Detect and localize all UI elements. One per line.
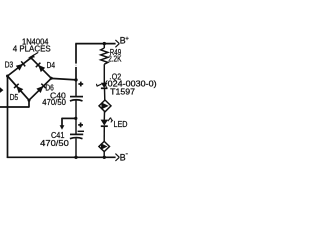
transistor Q2 (SCR) (97, 83, 108, 89)
svg-text:D4: D4 (47, 61, 56, 70)
node: junction dot tap stub / filter wire (74, 117, 77, 120)
diode D5 (14, 84, 23, 94)
diode Z2 (diamond breakdown device) (99, 141, 110, 151)
capacitor C41 (70, 134, 83, 138)
node: B+ terminal arrow (115, 40, 119, 47)
wire: C40 to C41 (75, 100, 77, 134)
svg-text:470/50: 470/50 (42, 98, 66, 107)
wire: R49 to Q2 (103, 64, 105, 83)
wire: bridge bottom-left edge (8, 76, 30, 100)
diode D6 (36, 84, 45, 93)
svg-text:D5: D5 (10, 93, 19, 102)
wire: AC input to bridge bottom vertex (0, 100, 29, 108)
wire: riser to B+ rail (75, 44, 77, 80)
node: junction dot B+ rail / R49 (103, 42, 106, 45)
diode D4 (36, 63, 45, 72)
diode Z1 (diamond breakdown device) (99, 100, 111, 112)
wire: bridge top-left edge (8, 58, 32, 76)
diode D3 (16, 61, 25, 70)
capacitor C40 (70, 97, 83, 101)
wire: Q2 to zener Z1 (104, 88, 106, 100)
wire: Z2 to B- rail (103, 151, 105, 157)
polarity + for C40 (78, 82, 83, 87)
svg-text:-: - (126, 149, 129, 158)
input terminal arrow (left, upper) (0, 87, 3, 93)
wire: bridge top-right edge (31, 58, 51, 79)
wire: LED to zener Z2 (103, 126, 105, 141)
node: bridge left vertex dot (6, 75, 9, 78)
wire: C41 to B- rail (75, 138, 77, 157)
svg-text:2.2K: 2.2K (108, 55, 122, 64)
svg-text:LED: LED (114, 120, 128, 129)
polarity + for C41 (78, 123, 83, 128)
wire: R49 top lead (103, 44, 105, 48)
LED indicator diode (101, 118, 113, 127)
callout arrow to bridge (4 places) (28, 52, 39, 58)
wire: filter node down to C40 (75, 80, 77, 97)
node: bridge top vertex dot (29, 56, 32, 59)
speck before Q2 label (110, 78, 111, 79)
wire: B+ rail (75, 43, 115, 45)
wire: bridge bottom-right edge (29, 78, 51, 100)
wire: B- rail (7, 156, 116, 158)
node: junction dot at filter column top (74, 78, 77, 81)
svg-text:4 PLACES: 4 PLACES (13, 43, 51, 53)
wire: bridge right vertex to filter node (51, 78, 76, 80)
node: bridge bottom vertex dot (28, 99, 31, 102)
svg-text:D3: D3 (5, 60, 14, 69)
polarity tick near C41 (78, 130, 84, 132)
svg-text:+: + (125, 35, 129, 42)
wire: Z1 to LED (103, 111, 105, 120)
resistor R49 (101, 48, 108, 64)
node: junction dot C41 / B- rail (74, 156, 77, 159)
node: B- terminal arrow (115, 154, 119, 161)
svg-text:470/50: 470/50 (40, 139, 69, 148)
node: bridge right vertex dot (50, 77, 53, 80)
svg-text:T1597: T1597 (110, 88, 135, 97)
node: junction dot Z2 / B- rail (103, 156, 106, 159)
wire: tap stub above C41 (elbow with down arrow) (60, 118, 76, 130)
wire: bridge left vertex down to B- rail (7, 76, 9, 158)
